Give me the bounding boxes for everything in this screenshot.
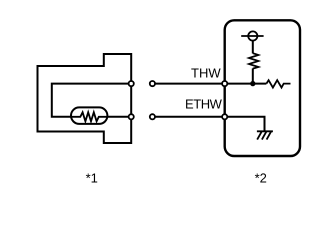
power supply symbol — [241, 31, 263, 40]
sensor internal wiring loop — [52, 84, 131, 117]
sensor terminal top — [129, 81, 134, 86]
svg-text:*2: *2 — [255, 170, 267, 185]
junction dot THW node — [250, 81, 255, 86]
wire THW harness — [155, 83, 224, 85]
thermistor body (stadium outline) — [71, 107, 107, 124]
ECM box *2 — [225, 20, 300, 156]
ground symbol — [257, 131, 273, 139]
ECM connector terminal THW — [222, 81, 227, 86]
svg-text:ETHW: ETHW — [185, 97, 223, 112]
wire resistor R1 to THW node — [252, 68, 254, 83]
svg-text:THW: THW — [191, 65, 221, 80]
ECT sensor housing *1 — [38, 54, 132, 143]
resistor R1 (vertical pull-up) — [249, 53, 258, 68]
harness connector terminal top — [150, 81, 155, 86]
svg-text:*1: *1 — [86, 170, 98, 185]
wire THW inside ECM — [225, 83, 267, 85]
wire ETHW harness — [155, 116, 224, 118]
wire ETHW inside ECM — [225, 117, 265, 131]
wire power to resistor R1 — [252, 41, 254, 54]
thermistor resistor zigzag — [71, 112, 107, 121]
harness connector terminal bottom — [150, 114, 155, 119]
wire thermistor to terminal — [107, 116, 131, 118]
ECM connector terminal ETHW — [222, 114, 227, 119]
sensor terminal bottom — [129, 114, 134, 119]
resistor R2 (horizontal) — [266, 80, 290, 87]
